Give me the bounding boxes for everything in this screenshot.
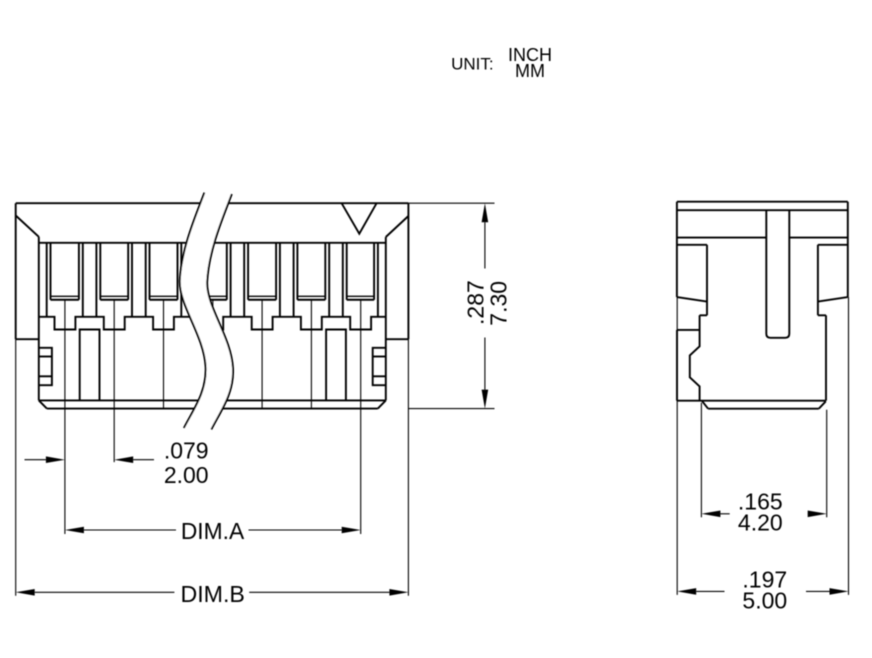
separating tooth T2 [127,243,129,300]
pin 7 center line [360,300,362,534]
slot 1 bottom double line [51,295,79,297]
pin 3 center line [163,300,165,409]
svg-text:MM: MM [515,61,545,81]
pin 5 center line [261,300,263,409]
left side step line [16,338,39,340]
right wing bottom slant [818,297,848,302]
svg-text:DIM.A: DIM.A [181,518,245,544]
right wall lip outer edge [373,243,375,300]
left step horizontal [700,314,707,316]
DIM.B left extension line [15,339,17,596]
right wall lip inner edge [377,243,379,317]
DIM.A dimension [65,527,84,534]
.165 right extension line [826,410,828,518]
side view floor line [677,400,826,402]
svg-text:5.00: 5.00 [742,587,787,613]
housing outer left edge [15,203,17,339]
body outer left edge [676,330,678,401]
svg-text:DIM.B: DIM.B [180,581,244,607]
.197 right extension line [848,297,850,595]
separating tooth T1 [78,243,80,300]
cavity zigzag floor profile [39,317,386,330]
separating tooth T3 [177,243,179,300]
inner floor line [39,399,386,401]
DIM.B right extension line [407,339,409,596]
pin 1 center line [64,300,66,534]
.287/7.30 height dimension [482,203,489,222]
outer bottom line [47,408,378,410]
break line left curve [180,193,206,428]
.197/5.00 dimension [677,588,696,595]
contact rib below tooth [80,330,100,401]
housing top edge [16,202,409,204]
left wing bottom slant [677,297,707,302]
separating tooth T4 [226,243,228,300]
.165/4.20 dimension [701,511,720,518]
right wing inner edge [817,245,819,315]
svg-text:2.00: 2.00 [164,462,209,488]
top-right inner chamfer [386,216,409,237]
contact rib below tooth [326,330,346,401]
right side latch box [373,348,386,385]
bottom-right chamfer [819,401,826,408]
left wing face top [677,244,707,246]
.079/2.00 pitch dimension [25,459,46,461]
side view bottom face [708,408,819,410]
left wing inner edge [706,245,708,315]
pin 2 center line [113,300,115,462]
slot 7 bottom double line [347,295,374,297]
center slot [766,210,789,338]
inner wall right [385,237,387,400]
top-left inner chamfer [16,216,39,237]
slot 4 bottom double line [199,295,227,297]
mid line left part [677,237,766,239]
svg-text:.079: .079 [164,437,209,463]
pin 4 center line [212,300,214,409]
bottom-right chamfer [378,400,386,408]
break band white mask [180,193,233,430]
body top-left horizontal [677,329,700,331]
side view outer left edge [676,202,678,297]
polarity V notch [342,203,377,234]
cavity top line [39,242,386,244]
DIM.B dimension [16,589,35,596]
.287 top extension line [408,202,494,204]
.165 left extension line [700,403,702,518]
left latch post with bump [690,315,700,400]
top band bottom line [677,209,848,211]
side view top edge [677,201,848,203]
svg-text:7.30: 7.30 [485,281,511,326]
slot 3 bottom double line [150,295,178,297]
pin 6 center line [310,300,312,409]
inner wall left [38,237,40,401]
slot 2 bottom double line [100,295,128,297]
left wall lip outer edge [50,243,52,300]
side view outer right edge [847,202,849,297]
right side step line [386,338,409,340]
separating tooth T5 [275,243,277,300]
housing outer right edge [407,203,409,339]
right step horizontal [818,314,826,316]
break line right curve [207,194,233,429]
bottom-left chamfer [39,400,47,408]
.287 bottom extension line [408,408,494,410]
slot 6 bottom double line [297,295,325,297]
svg-text:4.20: 4.20 [738,509,783,535]
.197 left extension line [676,297,678,595]
left wall lip inner edge [46,243,48,317]
svg-text:UNIT:: UNIT: [451,54,494,73]
body right edge [825,315,827,400]
mid line right part [789,237,848,239]
slot 5 bottom double line [248,295,276,297]
bottom-left chamfer [702,401,708,409]
left side latch box [39,348,52,385]
right wing face top [818,244,848,246]
separating tooth T6 [324,243,326,300]
